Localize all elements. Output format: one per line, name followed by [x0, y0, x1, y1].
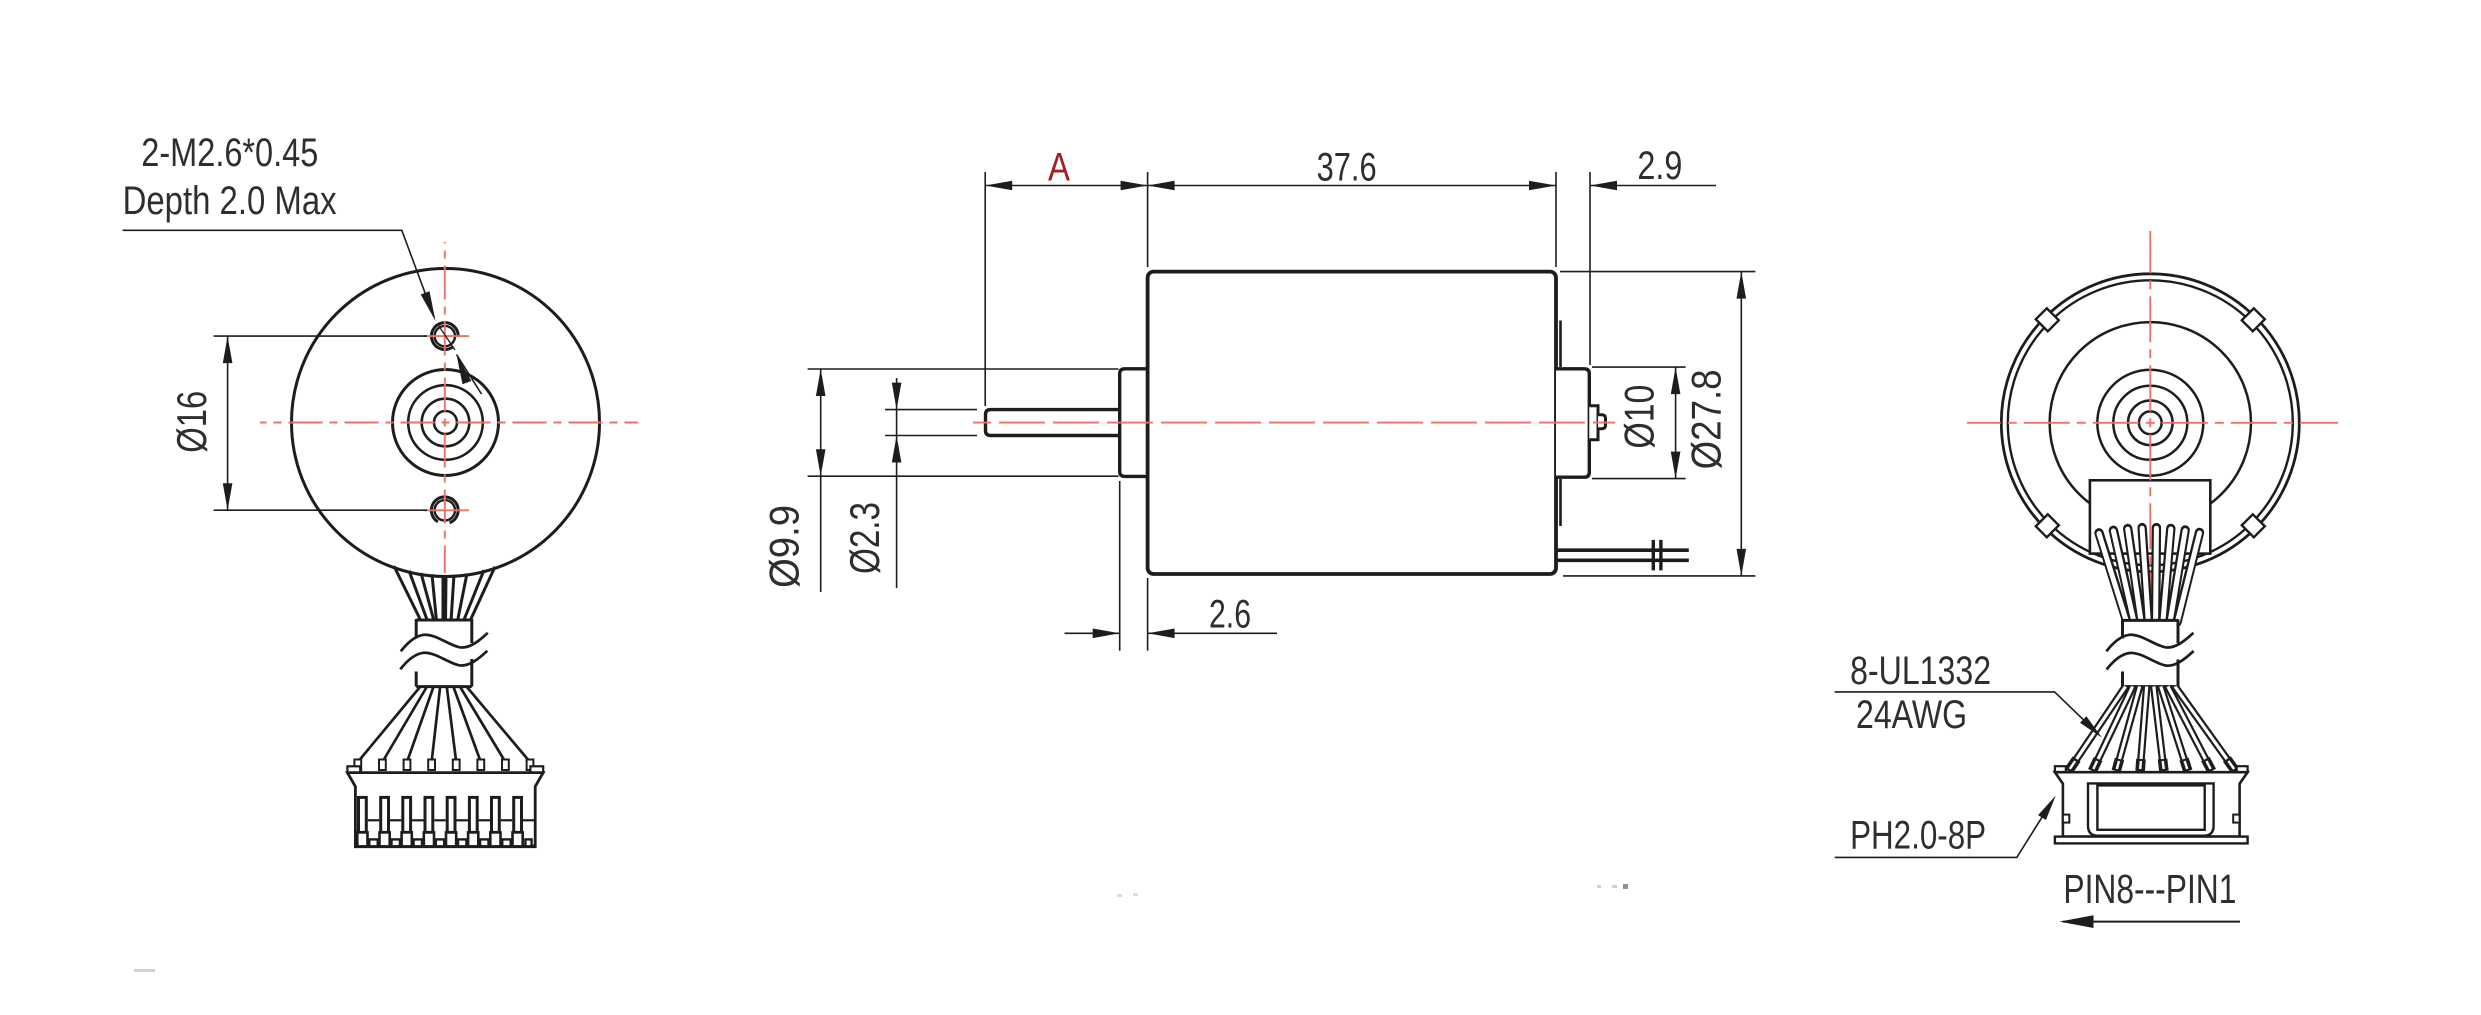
- rear view: bearing circle: [2128, 401, 2173, 446]
- left view: wire bundle from motor bottom to sleeve (10 wire lines): [394, 566, 421, 621]
- rear view: wire crimp terminal: [2163, 759, 2164, 771]
- left view: cable break wavy line upper: [401, 633, 488, 652]
- svg-text:Ø2.3: Ø2.3: [841, 502, 888, 574]
- left view: wire crimp terminal: [404, 760, 411, 771]
- left view: wire crimp terminal: [502, 760, 509, 771]
- dimension 37.6: dimension line with arrowheads: [1148, 185, 1556, 187]
- left view: red horizontal centerline: [260, 422, 638, 424]
- rear view: cable break wavy line lower: [2107, 651, 2194, 670]
- rear view: wire crimp terminal: [2227, 759, 2236, 771]
- connector housing front view: right corner tab: [530, 766, 543, 772]
- rear view: shaft circle: [2139, 411, 2162, 434]
- note 8-UL1332: leader line with arrowhead pointing at wires: [1835, 692, 2099, 734]
- connector side view: right corner tab: [2237, 766, 2248, 772]
- left view: bearing circle: [422, 399, 470, 447]
- side view: lead wires exiting rear (two parallel lines with break bars): [1556, 548, 1689, 552]
- rear view: wire crimp terminal: [2116, 759, 2119, 771]
- note leader line with arrowheads pointing at tapped hole: [123, 230, 434, 317]
- left view: heat-shrink sleeve rectangle (edges broken at waves): [416, 620, 472, 687]
- dimension A: dimension line with arrowheads: [985, 185, 1147, 187]
- dimension D16: dimension line with arrowheads: [227, 336, 229, 510]
- svg-text:24AWG: 24AWG: [1856, 693, 1967, 737]
- connector front view: 8 pin cavities comb pattern: [359, 797, 367, 832]
- left view: wire crimp terminal: [354, 760, 361, 771]
- dimension 2.9: arrow and tail: [1590, 181, 1617, 191]
- svg-text:Ø27.8: Ø27.8: [1682, 369, 1729, 469]
- rear view: wires fanning from sleeve to connector (8 outlined wires): [2069, 687, 2126, 772]
- rear view: inner rim circle: [2008, 280, 2293, 565]
- svg-text:A: A: [1048, 145, 1070, 189]
- left view: red vertical centerline: [444, 242, 446, 573]
- rear view: 8 wires from cover to sleeve (outlined capsules): [2099, 533, 2127, 623]
- dimension D10: dimension line with arrowheads: [1675, 367, 1677, 479]
- rear view: red horizontal centerline: [1967, 422, 2338, 424]
- side view: motor shaft: [986, 410, 1120, 436]
- dimension D27.8: dimension line with arrowheads: [1740, 272, 1742, 576]
- left view: cable break wavy line lower: [400, 651, 487, 670]
- dimension D16: lower extension line: [214, 509, 427, 511]
- dimension D9.9: extension lines: [808, 368, 1119, 370]
- side view: rear shaft stub (stepped): [1589, 406, 1598, 440]
- connector side view: right latch square: [2233, 815, 2239, 823]
- left view: red centerline tick of upper hole: [424, 335, 469, 337]
- svg-text:PH2.0-8P: PH2.0-8P: [1850, 813, 1986, 857]
- side view: red horizontal centerline through shaft axis: [973, 422, 1615, 424]
- rear view: wire crimp terminal: [2184, 759, 2188, 771]
- dimension 2.6: extension lines: [1119, 481, 1121, 651]
- left view: bearing recess circle: [408, 385, 483, 460]
- note PH2.0-8P: leader line with arrowhead pointing at connector: [1835, 800, 2053, 858]
- rear view: red vertical centerline (on top of cover, under wires): [2149, 231, 2151, 619]
- dimension D9.9: dimension line extension below: [820, 476, 822, 592]
- dimension A: left extension line (shaft end): [984, 172, 986, 406]
- rear view: wire crimp terminal: [2205, 759, 2211, 771]
- connector side view: housing outline: [2055, 772, 2248, 836]
- connector side view: inner cavity with rounded bottom corners: [2088, 783, 2214, 835]
- left view: shaft circle: [434, 411, 457, 434]
- left view: motor front face outline circle: [292, 269, 600, 577]
- rear view: wire crimp terminal: [2092, 759, 2098, 771]
- dimension 2.9: right extension line continuation of body rear face: [1555, 172, 1557, 267]
- pin order direction arrow pointing left: [2063, 921, 2240, 923]
- rear view: wire crimp terminal: [2069, 759, 2077, 771]
- connector front view: bottom edge: [354, 845, 537, 848]
- dimension 2.9: extension line (rear boss face): [1589, 172, 1591, 365]
- svg-text:PIN8---PIN1: PIN8---PIN1: [2063, 866, 2236, 912]
- connector housing front view: body outline: [347, 773, 543, 846]
- left view: M2.6 tapped hole at y=336 (thread arc + drill circle): [431, 323, 458, 350]
- side view: motor body rectangle: [1148, 272, 1556, 574]
- dimension D9.9: dimension line with arrowheads: [820, 369, 822, 476]
- rear view: heat-shrink sleeve rectangle (edges broken at waves): [2123, 620, 2179, 686]
- connector side view: left corner tab: [2055, 766, 2066, 772]
- rear view: wire exit cover rectangle: [2090, 480, 2210, 553]
- rear view: stator circle: [2050, 322, 2251, 523]
- connector side view: inner window rectangle: [2097, 785, 2204, 829]
- faint page specks: [1117, 894, 1122, 897]
- left view: red centerline tick of lower hole: [424, 509, 469, 511]
- rear view: bearing recess circle: [2113, 386, 2187, 460]
- left view: mounting boss circle: [393, 370, 499, 476]
- left view: wire crimp terminal: [477, 760, 484, 771]
- left view: wire crimp terminal: [527, 760, 534, 771]
- svg-text:8-UL1332: 8-UL1332: [1850, 649, 1991, 693]
- rear view: cable break wavy line upper: [2106, 633, 2193, 652]
- dimension D10: extension lines: [1592, 366, 1686, 368]
- rear view: four crimp tabs on housing rim at 45 deg positions: [2242, 308, 2265, 331]
- svg-text:Depth 2.0 Max: Depth 2.0 Max: [123, 179, 337, 223]
- rear view: wire crimp terminal: [2135, 759, 2145, 771]
- connector side view: left latch square: [2063, 815, 2069, 823]
- left view: wire crimp terminal: [379, 760, 386, 771]
- rear view: outer housing circle: [2001, 274, 2299, 572]
- dimension A: right extension line (body front face): [1147, 172, 1149, 267]
- connector housing front view: left corner tab: [347, 766, 360, 772]
- dimension D27.8: extension lines: [1560, 271, 1755, 273]
- svg-text:37.6: 37.6: [1317, 146, 1377, 190]
- side view: rear boss: [1556, 369, 1589, 477]
- svg-text:Ø10: Ø10: [1616, 385, 1663, 449]
- side view: rear end-cap edge line (two visible segments): [1559, 321, 1562, 368]
- svg-text:2-M2.6*0.45: 2-M2.6*0.45: [141, 131, 318, 175]
- left view: wire crimp terminal: [453, 760, 460, 771]
- dimension D16: upper extension line: [214, 335, 427, 337]
- dimension D2.3: dimension line with outside arrows: [896, 378, 898, 588]
- svg-text:2.6: 2.6: [1209, 592, 1251, 636]
- side view: front bearing boss: [1120, 369, 1148, 477]
- svg-text:Ø9.9: Ø9.9: [761, 505, 808, 588]
- svg-text:2.9: 2.9: [1637, 144, 1682, 188]
- dimension 2.6: arrows outside pointing inward: [1065, 632, 1120, 634]
- svg-text:Ø16: Ø16: [168, 391, 215, 453]
- left view: wire crimp terminal: [428, 760, 435, 771]
- rear view: boss circle: [2097, 370, 2203, 476]
- left view: M2.6 tapped hole at y=510 (thread arc + drill circle): [431, 497, 458, 523]
- dimension D2.3: extension lines: [885, 409, 977, 411]
- connector side view: bottom base strip: [2055, 837, 2248, 844]
- left view: wires fanning from sleeve to connector (8 wires): [358, 687, 420, 762]
